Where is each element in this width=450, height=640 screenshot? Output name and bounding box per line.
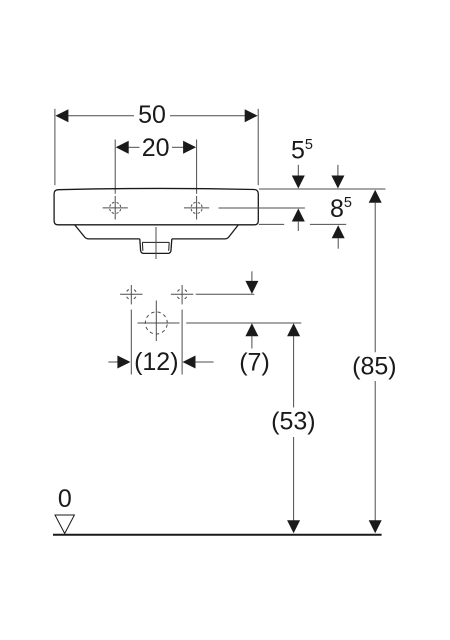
fixing holes extension line right down	[181, 310, 183, 375]
tap hole left crosshair vertical	[114, 196, 116, 220]
drain outlet outer profile	[140, 239, 172, 254]
extension line A from basin top edge	[259, 188, 386, 190]
svg-text:20: 20	[142, 134, 170, 162]
svg-text:85: 85	[330, 195, 352, 223]
dimension 7 up arrow stem	[251, 336, 253, 349]
dimension 5.5 up arrow stem	[297, 221, 299, 231]
dimension 7 down arrowhead	[245, 281, 258, 294]
dimension 50 extension line left	[54, 109, 56, 185]
dimension 53 top arrowhead	[287, 323, 300, 336]
tap hole right dashed circle	[191, 202, 202, 213]
tap hole right crosshair horizontal	[184, 207, 209, 209]
dimension 85 line lower segment	[374, 381, 376, 522]
svg-text:(12): (12)	[134, 348, 178, 376]
floor line	[53, 534, 382, 536]
dimension 8.5 up arrowhead	[332, 225, 345, 238]
dimension 8.5 down arrowhead	[331, 176, 344, 189]
trap outlet dashed circle	[145, 312, 167, 334]
tap hole left dashed circle	[110, 202, 121, 213]
dimension 53 line lower segment	[293, 437, 295, 522]
dimension 12 right arrow stem	[195, 361, 214, 363]
fixing holes extension line to the right	[196, 293, 255, 295]
fixing hole right crosshair horizontal	[171, 293, 193, 295]
fixing hole left dashed circle	[126, 289, 137, 300]
basin bowl right outline	[172, 225, 238, 239]
svg-text:0: 0	[58, 485, 72, 513]
svg-text:(53): (53)	[271, 407, 315, 435]
dimension 20 line left segment	[128, 146, 140, 148]
trap outlet crosshair horizontal	[138, 322, 180, 324]
datum triangle symbol	[55, 515, 74, 534]
dimension 50 line left segment	[68, 115, 134, 117]
svg-text:(7): (7)	[239, 348, 270, 376]
dimension 20 arrowhead right	[183, 141, 196, 154]
tap hole left crosshair horizontal	[103, 207, 128, 209]
drain outlet inner wall left	[141, 242, 144, 250]
dimension 53 line upper segment	[293, 336, 295, 407]
dimension 50 extension line right	[257, 109, 259, 185]
drain outlet inner wall right	[168, 242, 171, 250]
extension line C left segment from rim bottom	[259, 223, 284, 225]
dimension 53 bottom arrowhead	[287, 520, 300, 533]
dimension 5.5 down arrowhead	[292, 176, 305, 189]
dimension 8.5 down arrow stem	[337, 165, 339, 176]
drain centerline	[155, 227, 157, 259]
dimension 85 top arrowhead	[369, 190, 382, 203]
dimension 5.5 up arrowhead	[292, 209, 305, 222]
svg-text:55: 55	[291, 136, 313, 164]
extension line B from tap hole axis	[219, 207, 305, 209]
trap outlet crosshair vertical	[155, 301, 157, 342]
extension line C right segment	[310, 223, 346, 225]
dimension 7 up arrowhead	[245, 323, 258, 336]
svg-text:(85): (85)	[352, 353, 396, 381]
dimension 20 extension line right (tap hole centerline)	[196, 140, 198, 194]
dimension 50 arrowhead right	[245, 109, 258, 122]
dimension 20 arrowhead left	[116, 141, 129, 154]
tap hole right crosshair vertical	[196, 196, 198, 220]
fixing holes extension line left down	[130, 310, 132, 375]
basin rim outline	[54, 188, 258, 224]
basin bowl left outline	[75, 225, 140, 239]
dimension 12 left arrowhead pointing right	[117, 356, 130, 369]
dimension 12 right arrowhead pointing left	[183, 356, 196, 369]
dimension 50 line right segment	[170, 115, 246, 117]
trap outlet extension line to the right	[186, 322, 301, 324]
fixing hole left crosshair vertical	[130, 285, 132, 304]
dimension 7 down arrow stem	[251, 271, 253, 282]
dimension 50 arrowhead left	[55, 109, 68, 122]
fixing hole right crosshair vertical	[181, 285, 183, 304]
dimension 12 left arrow stem	[108, 361, 118, 363]
dimension 8.5 up arrow stem	[337, 238, 339, 249]
dimension 85 bottom arrowhead	[369, 520, 382, 533]
drain outlet inner lip line	[142, 241, 169, 243]
svg-text:50: 50	[138, 101, 166, 129]
fixing hole left crosshair horizontal	[120, 293, 142, 295]
fixing hole right dashed circle	[177, 289, 188, 300]
dimension 20 line right segment	[172, 146, 184, 148]
dimension 85 line upper segment	[374, 202, 376, 352]
dimension 5.5 down arrow stem	[297, 165, 299, 176]
dimension 20 extension line left (tap hole centerline)	[114, 140, 116, 194]
